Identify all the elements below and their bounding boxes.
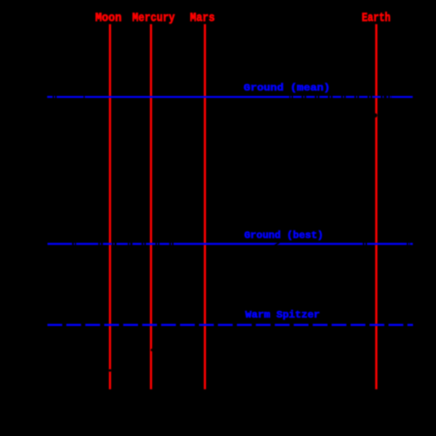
- blue line Ground (best): [48, 243, 413, 245]
- red vertical line Moon: [109, 24, 111, 389]
- svg-text:Moon: Moon: [95, 12, 122, 25]
- svg-text:Earth: Earth: [362, 12, 391, 25]
- svg-text:Ground (mean): Ground (mean): [244, 82, 331, 94]
- red vertical line Earth: [375, 24, 377, 389]
- black data point occluding Mercury line: [151, 349, 154, 352]
- blue line Ground (mean): [47, 96, 413, 98]
- svg-text:Mercury: Mercury: [132, 12, 175, 25]
- blue line Warm Spitzer: [47, 324, 413, 326]
- svg-text:Warm Spitzer: Warm Spitzer: [245, 310, 320, 322]
- black crossing stroke occluding Ground (best) line: [275, 243, 280, 246]
- svg-text:Mars: Mars: [190, 12, 215, 25]
- svg-text:Ground (best): Ground (best): [244, 230, 323, 242]
- black data point occluding Moon line: [109, 369, 112, 372]
- black data point occluding Earth line: [373, 113, 377, 117]
- red vertical line Mercury: [150, 24, 152, 389]
- red vertical line Mars: [204, 24, 206, 389]
